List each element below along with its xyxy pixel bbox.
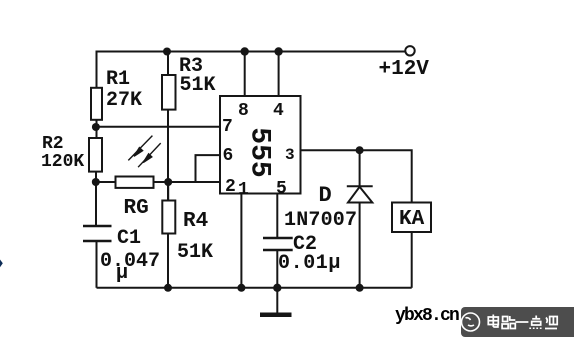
- wire pin6 step: [196, 155, 221, 182]
- node C R3-R4-RG-pin2 junction: [164, 178, 172, 186]
- light arrows into RG: [128, 136, 160, 168]
- node A R1-R2-pin7 junction: [92, 123, 100, 131]
- label RG: [124, 197, 149, 220]
- wire KA bottom to rail: [411, 232, 413, 288]
- value 0.047: [100, 250, 160, 273]
- resistor RG photoresistor body: [116, 177, 154, 188]
- node H rail R4 junction: [164, 284, 172, 292]
- label R2: [42, 134, 64, 154]
- wire R1 bottom to node: [96, 120, 98, 138]
- value 27K: [106, 89, 142, 112]
- capacitor C1: [83, 226, 112, 241]
- value C1 mu: [116, 262, 128, 285]
- node D top rail R3 junction: [163, 48, 171, 56]
- node F top rail pin4 junction: [274, 47, 282, 55]
- pin 5: [276, 179, 287, 199]
- watermark badge: [461, 307, 574, 337]
- wire pin1 to rail: [240, 194, 242, 288]
- char yi: [515, 321, 528, 323]
- wire top rail +12V: [97, 52, 406, 89]
- node E top rail pin8 junction: [241, 47, 249, 55]
- char tong: [546, 318, 547, 324]
- relay KA box: [392, 203, 431, 233]
- wire diode branch vertical: [359, 150, 361, 186]
- watermark logo circle: [462, 313, 480, 331]
- wire R2 bottom to node: [95, 172, 97, 226]
- diode D symbol: [347, 185, 373, 187]
- label R4: [183, 210, 208, 233]
- capacitor C2: [263, 238, 293, 250]
- wire R3-R4 vertical: [167, 110, 169, 201]
- value 51K R4: [177, 241, 213, 264]
- char lu: [503, 317, 508, 322]
- char dian2: [535, 316, 537, 320]
- wire pin7 row: [96, 126, 220, 128]
- wire C1 bottom to rail: [96, 241, 98, 288]
- wire RG row / pin2 row: [96, 181, 220, 183]
- value 51K R3: [180, 74, 216, 97]
- label R3: [179, 55, 203, 78]
- value 1N7007: [284, 209, 357, 232]
- watermark ybx8.cn: [395, 306, 458, 326]
- node B R2-RG-C1 junction: [92, 178, 100, 186]
- node J rail ground junction: [273, 284, 281, 292]
- pin 1: [238, 180, 249, 200]
- pin 3: [285, 146, 295, 164]
- wire C2 bottom to rail: [276, 250, 278, 288]
- resistor R3: [162, 75, 176, 110]
- label D: [319, 183, 332, 208]
- resistor R2: [89, 138, 102, 172]
- wire pin3 row to KA corner: [301, 150, 412, 202]
- terminal +12V open circle: [405, 46, 414, 55]
- label C1: [117, 227, 141, 250]
- wire R4 bottom: [167, 234, 169, 288]
- char dian1: [488, 317, 498, 325]
- value 0.01u: [278, 252, 341, 275]
- label KA: [399, 208, 424, 231]
- label +12V: [379, 58, 429, 81]
- resistor R4: [162, 201, 175, 234]
- pin 8: [238, 101, 249, 121]
- node G pin3-diode junction: [356, 146, 364, 154]
- resistor R1: [91, 88, 102, 120]
- wire pin4 stub: [278, 52, 280, 97]
- op-amp U1 555 IC body: [220, 96, 301, 194]
- wire bottom rail: [97, 287, 412, 289]
- label 555 rotated: [243, 127, 274, 179]
- node K rail diode junction: [356, 284, 364, 292]
- label C2: [293, 233, 317, 256]
- wire pin8 stub: [244, 52, 246, 97]
- watermark text dianlu yidiantong strokes: [488, 315, 557, 330]
- ground: [276, 288, 278, 313]
- pin 2: [225, 177, 236, 197]
- wire pin5 to C2: [276, 194, 278, 239]
- wire diode anode to rail: [359, 203, 361, 288]
- value 120K: [41, 152, 84, 172]
- node I rail pin1 junction: [237, 284, 245, 292]
- pin 4: [273, 101, 284, 121]
- wire R3 top stub: [167, 52, 169, 76]
- pin 7: [222, 117, 233, 137]
- label R1: [106, 68, 130, 91]
- pin 6: [223, 146, 234, 166]
- left edge blue artifact: [0, 260, 3, 268]
